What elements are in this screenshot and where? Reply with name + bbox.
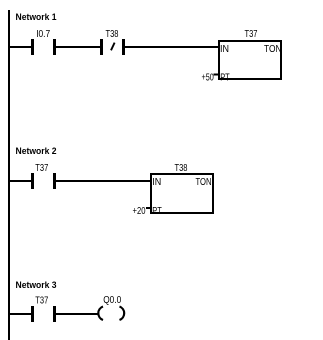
svg-text:Network 3: Network 3 [16,280,57,291]
svg-text:T37: T37 [35,163,48,174]
svg-text:PT: PT [220,72,230,84]
svg-text:Q0.0: Q0.0 [103,295,121,306]
svg-text:TON: TON [196,176,212,188]
svg-text:+50: +50 [202,72,214,84]
svg-text:Network 2: Network 2 [16,146,57,157]
svg-text:TON: TON [264,43,282,55]
svg-text:PT: PT [152,205,162,217]
svg-text:T38: T38 [175,163,188,174]
svg-text:+20: +20 [133,205,146,217]
svg-text:T37: T37 [35,296,48,307]
svg-text:IN: IN [220,43,229,55]
svg-text:IN: IN [152,176,161,188]
svg-text:T38: T38 [106,29,119,40]
svg-text:I0.7: I0.7 [36,29,50,40]
svg-text:Network 1: Network 1 [16,12,58,23]
svg-text:T37: T37 [245,29,258,40]
